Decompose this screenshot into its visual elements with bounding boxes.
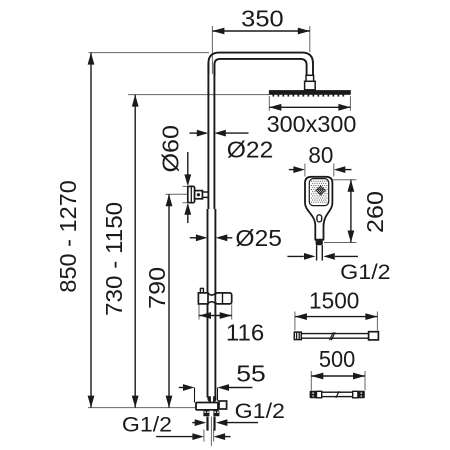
svg-text:350: 350 xyxy=(241,5,283,31)
svg-text:790: 790 xyxy=(144,267,170,309)
svg-text:G1/2: G1/2 xyxy=(235,400,285,423)
svg-text:Ø25: Ø25 xyxy=(235,225,282,251)
svg-text:260: 260 xyxy=(362,191,388,233)
svg-text:Ø60: Ø60 xyxy=(158,125,184,173)
svg-text:116: 116 xyxy=(226,320,264,346)
svg-text:Ø22: Ø22 xyxy=(227,136,274,162)
svg-text:80: 80 xyxy=(308,142,333,168)
svg-text:730 - 1150: 730 - 1150 xyxy=(101,202,127,316)
svg-text:850 - 1270: 850 - 1270 xyxy=(55,180,81,292)
svg-text:G1/2: G1/2 xyxy=(340,261,390,284)
svg-text:55: 55 xyxy=(236,361,266,387)
svg-text:G1/2: G1/2 xyxy=(122,414,172,437)
svg-text:300x300: 300x300 xyxy=(267,111,357,137)
svg-text:500: 500 xyxy=(319,346,355,372)
svg-text:1500: 1500 xyxy=(309,287,359,313)
